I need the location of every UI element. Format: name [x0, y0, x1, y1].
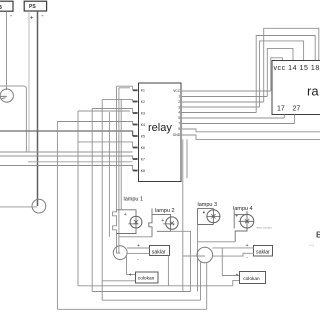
svg-text:lampu 1: lampu 1 [124, 196, 144, 202]
lamp L3 frame [198, 209, 214, 225]
riser b x118.9 to J2 [118, 88, 120, 253]
bottom bus HB3 [92, 291, 190, 293]
svg-text:PS: PS [29, 4, 36, 10]
J3 bottom riser b [206, 262, 208, 309]
loop pin1 to rasp 14 [267, 48, 293, 96]
wire pin9 row long right [181, 129, 320, 132]
svg-text:2: 2 [178, 100, 180, 104]
colokan 1 lower feed [102, 280, 135, 282]
riser a x116.5 to J2 with connector notches [113, 86, 117, 253]
lamp L4 bracket [233, 210, 235, 228]
colokan 1 box [136, 272, 159, 283]
saklar 1 box [150, 246, 170, 256]
svg-text:relay: relay [148, 122, 172, 134]
AC source circle [0, 89, 13, 102]
raspberry box [272, 61, 320, 115]
svg-text:+: + [137, 243, 140, 249]
loop VCC to rasp vcc [271, 58, 283, 91]
wire K6 feed [78, 142, 133, 148]
lamp L4 stem [246, 211, 248, 231]
lamp L1 cross [128, 220, 138, 224]
relay right pin labels [173, 89, 181, 137]
source wire from left [0, 96, 7, 98]
svg-text:saklar: saklar [256, 250, 270, 256]
lamp L2 [166, 217, 178, 229]
svg-text:B: B [0, 5, 2, 11]
junction circle J2 [113, 246, 127, 260]
svg-text:K8: K8 [141, 169, 145, 173]
saklar1 bottom drop [167, 256, 169, 286]
svg-text:colokan: colokan [138, 276, 155, 282]
wire K3 feed pair [78, 109, 133, 114]
colokan 2 feed branch [222, 248, 240, 276]
wire pin2 row [181, 101, 264, 103]
svg-text:+: + [124, 212, 127, 218]
svg-text:5: 5 [178, 116, 180, 120]
bottom bus HB4 [102, 299, 200, 301]
wire into J3 from left [183, 255, 205, 257]
svg-text:K6: K6 [141, 146, 145, 150]
L4 bottom riser [235, 228, 247, 242]
lamp L4 [240, 214, 254, 228]
wire GND row long right [181, 135, 320, 139]
svg-text:colokan: colokan [243, 276, 260, 282]
wire L4 to J3 top [198, 241, 236, 243]
wire pin5 row to rasp17 [181, 115, 284, 119]
lamp L4 cross [239, 219, 255, 223]
wire pin3 row [181, 106, 260, 108]
wire K4 feed [57, 122, 132, 125]
stub V x187 [186, 139, 188, 178]
svg-text:4: 4 [178, 111, 180, 115]
wire VCC row [181, 90, 271, 92]
svg-text:7: 7 [178, 122, 180, 126]
lamp L1 bottom wire [117, 228, 137, 234]
svg-text:K2: K2 [141, 100, 145, 104]
wire battery down to source circle [6, 11, 8, 90]
svg-text:1: 1 [178, 95, 180, 99]
svg-text:+: + [236, 272, 239, 278]
wire into J1 from left [0, 206, 37, 208]
svg-text:K5: K5 [141, 134, 145, 138]
wire J3 to saklar2 lower (jogged) [213, 253, 254, 256]
riser V x182.8 [182, 139, 184, 291]
loop pin4 to rasp 18 [256, 36, 315, 113]
svg-text:lampu 2: lampu 2 [155, 208, 175, 214]
K1 feed pair [117, 86, 133, 90]
svg-text:lampu 4: lampu 4 [233, 206, 253, 212]
loop pin2 outer [264, 28, 319, 102]
svg-text:+: + [161, 218, 164, 224]
lamp L2 cross [163, 221, 174, 225]
svg-text:K4: K4 [141, 123, 145, 127]
lamp L2 return riser [171, 231, 191, 291]
wire J2 to saklar1 upper [127, 247, 149, 249]
svg-text:lampu 3: lampu 3 [198, 202, 218, 208]
svg-text:+: + [235, 213, 238, 219]
svg-text:K3: K3 [141, 111, 145, 115]
colokan 2 box [240, 272, 266, 284]
colokan2 lower feed riser [233, 280, 240, 285]
svg-text:9: 9 [178, 127, 180, 131]
svg-text:VCC: VCC [173, 89, 180, 93]
svg-text:e rg: e rg [309, 243, 315, 247]
relay left pin labels K1-K8 [141, 89, 145, 173]
J2 tick [116, 252, 120, 254]
source box (left, cut off) [0, 86, 26, 152]
wire K2 feed [102, 99, 132, 101]
svg-text:+: + [30, 14, 34, 21]
lamp L4 top wire [234, 214, 247, 216]
svg-text:+: + [129, 273, 132, 279]
svg-text:GND: GND [173, 133, 181, 137]
lamp L3 cross [207, 214, 221, 218]
relay right pin wires to loops [181, 91, 271, 113]
lamp L1 top wire [117, 210, 137, 228]
svg-text:ra: ra [307, 84, 319, 99]
riser V x57.4 down to bottom bus [56, 122, 58, 310]
svg-text:K1: K1 [141, 89, 145, 93]
lamp L2 top wire [152, 214, 171, 229]
bus K5 feed (dark) [0, 131, 133, 136]
wire PS minus down to junction J1 [37, 11, 39, 206]
svg-text:17: 17 [277, 106, 285, 113]
wire pin4 row [181, 112, 256, 114]
riser V x109.4 [108, 112, 110, 237]
power supply box PS [24, 1, 46, 11]
bus K7 feed [0, 156, 133, 159]
bus mid row [28, 161, 133, 163]
riser V x78 [77, 111, 79, 286]
riser c x121.2 [120, 99, 122, 209]
J3 bottom riser a [200, 262, 202, 300]
saklar 2 box [254, 246, 273, 257]
lamp L1 [130, 216, 142, 228]
svg-text:+: + [246, 243, 249, 249]
junction circle J1 (left) [32, 199, 46, 213]
svg-text:B: B [316, 230, 320, 240]
bus K8 feed [0, 166, 133, 171]
svg-text:27: 27 [293, 106, 301, 113]
lamp L2 bottom wire [157, 229, 171, 231]
svg-text:saklar: saklar [152, 250, 166, 256]
wire PS plus down to box bottom bus [28, 11, 30, 152]
link wire to lamp2 bracket [119, 236, 152, 238]
svg-text:K7: K7 [141, 157, 145, 161]
wire pin7 row to rasp27 [181, 115, 295, 124]
bottom bus HB2 [78, 285, 233, 287]
relay chip U1 [139, 83, 182, 182]
lamp L2 bracket [149, 209, 152, 237]
relay left pin dashes [133, 90, 138, 170]
battery box B (top-left, cut off) [0, 1, 13, 11]
bottom bus HB5 [57, 308, 206, 310]
riser V x102.2 (K2 feed to colokan1 / HB4) [101, 99, 103, 300]
riser V x92 [91, 109, 93, 292]
plus dot at L3 [203, 212, 205, 214]
wire pin1 row [181, 96, 267, 98]
svg-text:relay contact: relay contact [256, 225, 272, 229]
svg-text:3: 3 [178, 105, 180, 109]
bus box-bottom row [0, 151, 133, 153]
lamp L3 [207, 210, 220, 223]
lamp L3 stem [212, 209, 214, 225]
svg-text:vcc 14 15 18: vcc 14 15 18 [274, 65, 320, 72]
wire J3 to saklar2 upper [213, 247, 255, 249]
loop pin3 to rasp 15 [260, 41, 304, 107]
L3 down riser [197, 225, 199, 292]
junction circle J3 [197, 247, 213, 263]
wire J2 to saklar1 lower [127, 253, 149, 255]
colokan 1 feed upper from J2 [127, 256, 136, 274]
